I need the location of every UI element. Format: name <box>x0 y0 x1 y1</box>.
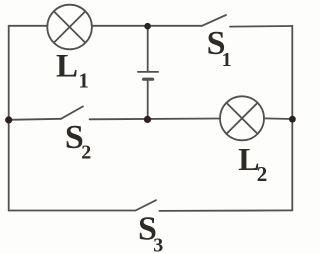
label L1 <box>56 48 89 92</box>
wire middle branch upper <box>147 26 149 72</box>
label S3 <box>138 210 163 253</box>
wire right edge <box>291 26 293 211</box>
label S1 <box>207 25 232 71</box>
label S2 <box>65 119 91 164</box>
switch S2 <box>61 106 83 118</box>
wire middle segment (switch S2 to lamp L2) <box>90 118 221 121</box>
svg-text:2: 2 <box>81 142 91 164</box>
lamp L2 <box>220 96 264 140</box>
wire left edge <box>8 26 10 211</box>
wire middle branch lower <box>147 79 149 119</box>
svg-text:1: 1 <box>78 69 89 93</box>
svg-text:2: 2 <box>257 162 268 186</box>
node left junction <box>5 116 12 123</box>
wire top-left segment <box>9 25 48 27</box>
switch S3 <box>136 200 157 210</box>
battery cell <box>138 72 158 79</box>
svg-text:1: 1 <box>222 49 232 71</box>
switch S1 <box>202 15 226 26</box>
svg-text:L: L <box>56 48 78 84</box>
wire bottom-right segment <box>159 209 292 212</box>
wire bottom-left segment <box>9 210 136 212</box>
lamp L1 <box>47 5 92 50</box>
svg-text:3: 3 <box>153 235 163 253</box>
node top junction <box>144 23 151 30</box>
wire middle-left segment <box>9 119 61 120</box>
wire middle-right segment <box>264 117 292 120</box>
wire top-middle segment (lamp L1 to switch S1) <box>92 25 202 27</box>
node middle junction <box>144 116 151 123</box>
wire top-right segment <box>230 25 292 28</box>
label L2 <box>238 141 267 186</box>
node right junction <box>289 116 296 123</box>
